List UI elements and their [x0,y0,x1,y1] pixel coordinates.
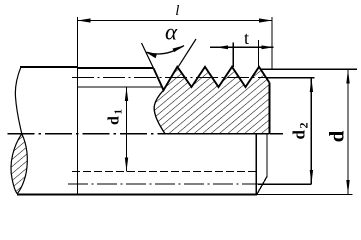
svg-text:d2: d2 [290,123,311,140]
svg-text:l: l [175,3,179,19]
svg-text:t: t [244,28,249,48]
svg-text:d: d [325,130,349,142]
svg-text:α: α [165,20,178,45]
svg-text:d1: d1 [106,109,125,125]
